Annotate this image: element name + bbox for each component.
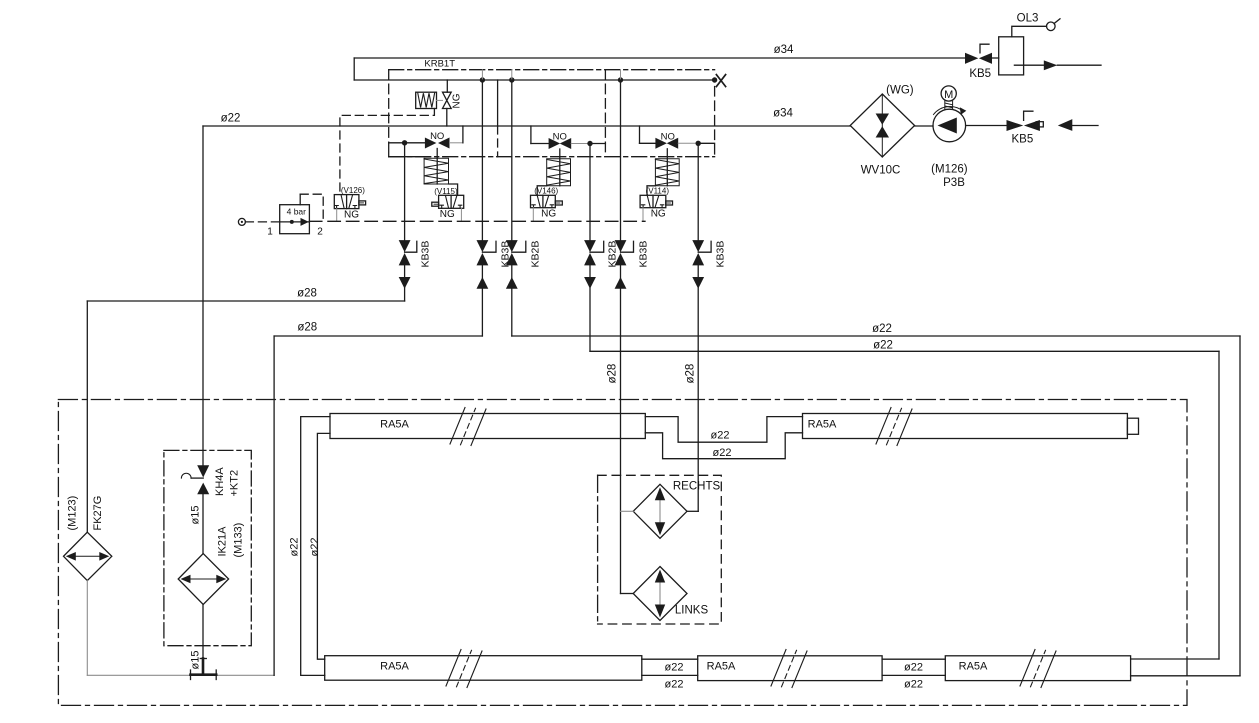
svg-text:ø22: ø22 xyxy=(221,113,241,125)
wire: bottom gap 2 links xyxy=(882,658,945,660)
svg-text:KB5: KB5 xyxy=(1012,134,1034,146)
wire: ø28 line 2 xyxy=(274,335,482,337)
svg-text:KB5: KB5 xyxy=(969,68,991,80)
svg-text:LINKS: LINKS xyxy=(675,605,709,617)
wire: bottom gap 1 links xyxy=(642,658,698,660)
wire: bottom-right cylinder to right edge verticals xyxy=(1131,658,1219,660)
solenoid valve V115 xyxy=(432,187,464,221)
node junction dot col3 on KRB1T xyxy=(509,77,514,82)
svg-text:NG: NG xyxy=(541,208,556,219)
node X at end of KRB1T manifold line xyxy=(712,77,717,82)
wire: dashed continuation x=497.6 below main line xyxy=(497,126,499,157)
wire: left supply vertical x=203 xyxy=(202,126,204,465)
wire: dashed pilot from relief spring to V126 xyxy=(340,109,435,195)
svg-text:(V114): (V114) xyxy=(646,186,670,195)
solenoid valve V114 xyxy=(640,186,672,221)
wire: relief valve vertical xyxy=(446,80,448,92)
check valve KB5 lower xyxy=(1007,111,1044,145)
svg-text:ø34: ø34 xyxy=(773,108,793,120)
check valve column 1 KB3B xyxy=(399,143,432,301)
relief valve hourglass xyxy=(443,92,452,108)
wire: top-left cylinder left port A down xyxy=(301,417,330,676)
svg-text:M: M xyxy=(944,89,953,101)
svg-text:ø22: ø22 xyxy=(711,430,730,442)
svg-text:NG: NG xyxy=(651,208,666,219)
svg-text:+KT2: +KT2 xyxy=(229,470,241,497)
svg-text:ø22: ø22 xyxy=(665,678,684,690)
svg-text:NG: NG xyxy=(344,209,359,220)
svg-text:ø15: ø15 xyxy=(190,651,202,670)
flow arrow into system lower xyxy=(1058,119,1073,131)
svg-text:ø22: ø22 xyxy=(309,538,321,557)
svg-text:NO: NO xyxy=(430,131,444,142)
brake cylinder RA5A top-right xyxy=(803,408,1139,446)
svg-text:KRB1T: KRB1T xyxy=(424,59,455,70)
svg-text:KB2B: KB2B xyxy=(530,241,542,268)
svg-text:FK27G: FK27G xyxy=(92,496,104,531)
outer dash-dot machine boundary box xyxy=(58,400,1187,706)
svg-text:ø22: ø22 xyxy=(289,538,301,557)
wire: dashed pilot rail along solenoid valves xyxy=(309,220,645,222)
svg-text:1: 1 xyxy=(267,227,273,238)
svg-text:IK21A: IK21A xyxy=(217,526,229,557)
wire: FK27G branch vertical upper xyxy=(86,301,88,532)
svg-text:(V126): (V126) xyxy=(341,186,365,195)
svg-text:RA5A: RA5A xyxy=(707,661,736,673)
check valve column 5 KB3B xyxy=(615,80,650,594)
pilot check group 2: NO valve xyxy=(531,126,606,149)
node junction dot col2 on KRB1T xyxy=(480,77,485,82)
svg-text:P3B: P3B xyxy=(943,177,965,189)
wire: OL3 outlet with arrow xyxy=(1014,64,1043,66)
brake cylinder RA5A bottom-middle xyxy=(698,650,882,688)
svg-text:4 bar: 4 bar xyxy=(287,207,307,217)
check valve column 6 KB3B xyxy=(692,143,726,511)
wire: vertical x=497.6 between KRB1T and main line xyxy=(497,80,499,126)
pump P3B (M126) xyxy=(931,86,968,189)
svg-text:ø15: ø15 xyxy=(190,506,202,525)
wire: dashed manifold bottom boundary xyxy=(389,156,715,158)
svg-text:RECHTS: RECHTS xyxy=(673,481,721,493)
wire: pump outlet line xyxy=(966,125,1007,127)
wire: top-left cylinder left port B down xyxy=(317,433,330,659)
wire: ø28 line 2 drop to tank xyxy=(273,336,275,675)
pressure switch 4 bar xyxy=(267,194,323,237)
svg-text:ø28: ø28 xyxy=(685,364,697,384)
spring of pilot check 1 xyxy=(424,149,458,196)
svg-text:RA5A: RA5A xyxy=(959,661,988,673)
test point circle xyxy=(238,218,245,225)
spring of pilot check 3 xyxy=(647,149,679,196)
solenoid valve V126 xyxy=(334,186,365,221)
wire: stepped link upper between top cylinders xyxy=(645,417,802,443)
brake cylinder RA5A bottom-right xyxy=(945,650,1130,688)
svg-text:RA5A: RA5A xyxy=(380,419,409,431)
svg-text:ø22: ø22 xyxy=(872,323,892,335)
rotary actuator LINKS diamond xyxy=(633,567,708,621)
svg-text:(M126): (M126) xyxy=(931,164,968,176)
svg-text:(M133): (M133) xyxy=(233,523,245,558)
wire: KH4A to IK21A xyxy=(202,494,204,553)
node junction dot col5 on KRB1T xyxy=(618,77,623,82)
wire: KRB1T return line top (ø34) xyxy=(354,57,965,59)
tank OL3 box xyxy=(999,13,1060,75)
svg-text:ø22: ø22 xyxy=(873,340,893,352)
filter IK21A diamond (M133) xyxy=(178,523,244,605)
check valve KB5 upper xyxy=(965,44,992,80)
dashed box RECHTS/LINKS xyxy=(598,475,722,624)
svg-text:ø34: ø34 xyxy=(774,44,794,56)
wire: right edge vertical inner xyxy=(1218,351,1220,659)
check valve KH4A with strainer KT2 xyxy=(181,465,240,496)
brake cylinder RA5A top-left xyxy=(330,408,645,446)
check valve column 4 KB2B xyxy=(584,144,618,352)
wire: left end vertical joining the two KRB1T lines xyxy=(353,58,355,80)
svg-text:RA5A: RA5A xyxy=(808,419,837,431)
check valve column 2 KB3B xyxy=(477,80,512,336)
rotary actuator RECHTS diamond xyxy=(633,481,720,539)
wire: main pressure line ø22/ø34 xyxy=(203,125,850,127)
wire: dashed manifold left edge x=388.7 xyxy=(388,70,390,143)
wire: IK21A down to tank symbol xyxy=(202,604,204,674)
filter FK27G diamond (M123) xyxy=(64,496,112,581)
svg-text:KH4A: KH4A xyxy=(214,467,226,496)
svg-text:(V115): (V115) xyxy=(434,187,458,196)
filter WV10C diamond xyxy=(850,85,914,177)
svg-text:ø28: ø28 xyxy=(607,364,619,384)
svg-text:(WG): (WG) xyxy=(886,85,914,97)
wire: KB5 to OL3 xyxy=(992,57,999,59)
svg-text:ø22: ø22 xyxy=(713,447,732,459)
wire: RECHTS right port link from col6 xyxy=(687,510,698,512)
relief valve spring box xyxy=(416,92,437,108)
pilot check group 1: NO valve xyxy=(389,126,463,157)
brake cylinder RA5A bottom-left xyxy=(325,650,642,688)
wire: ø22 upper line to right edge xyxy=(512,335,1240,337)
wire: line WV10C to pump xyxy=(915,125,933,127)
svg-text:NG: NG xyxy=(440,209,455,220)
svg-text:ø22: ø22 xyxy=(904,678,923,690)
svg-text:OL3: OL3 xyxy=(1017,13,1039,25)
wire: gray stubs pilot dash-dot to junction dots xyxy=(482,70,620,80)
svg-text:RA5A: RA5A xyxy=(380,661,409,673)
wire: KRB1T pilot dash-dot line xyxy=(389,69,715,71)
svg-text:KB3B: KB3B xyxy=(715,241,727,268)
wire: ø28 line 1 xyxy=(87,300,404,302)
svg-text:ø28: ø28 xyxy=(297,322,317,334)
wire: FK27G to tank line xyxy=(86,581,88,676)
wire: ø22 lower line to right edge xyxy=(590,350,1219,352)
inner dash-dot box KH4A/IK21A xyxy=(164,450,251,645)
solenoid valve V146 xyxy=(531,186,563,221)
svg-text:WV10C: WV10C xyxy=(861,165,901,177)
wire: dashed manifold vertical x=605.4 xyxy=(604,70,606,157)
wire: gray link spring box to relief valve xyxy=(437,99,443,101)
svg-text:(M123): (M123) xyxy=(67,496,79,531)
wire: LINKS left port link from col5 xyxy=(621,593,634,595)
wire: RECHTS left port link xyxy=(621,510,634,512)
wire: KRB1T manifold line xyxy=(354,79,714,81)
svg-text:ø22: ø22 xyxy=(904,662,923,674)
svg-text:(V146): (V146) xyxy=(534,186,558,195)
wire: dashed manifold right edge x=714.6 xyxy=(714,87,716,157)
pilot check group 3: NO valve xyxy=(640,126,715,149)
svg-text:ø22: ø22 xyxy=(665,662,684,674)
wire: dashed pilot line from test point to switch xyxy=(245,221,279,223)
svg-text:KB3B: KB3B xyxy=(420,241,432,268)
svg-text:ø28: ø28 xyxy=(297,288,317,300)
svg-text:NG: NG xyxy=(452,93,463,108)
svg-text:NO: NO xyxy=(553,131,567,142)
wire: stepped link lower between top cylinders xyxy=(645,433,802,459)
spring of pilot check 2 xyxy=(537,149,570,195)
tank symbol xyxy=(191,659,217,680)
wire: right edge vertical outer xyxy=(1239,336,1241,676)
svg-text:2: 2 xyxy=(317,227,323,238)
svg-text:KB3B: KB3B xyxy=(638,241,650,268)
check valve column 3 KB2B xyxy=(506,80,542,336)
